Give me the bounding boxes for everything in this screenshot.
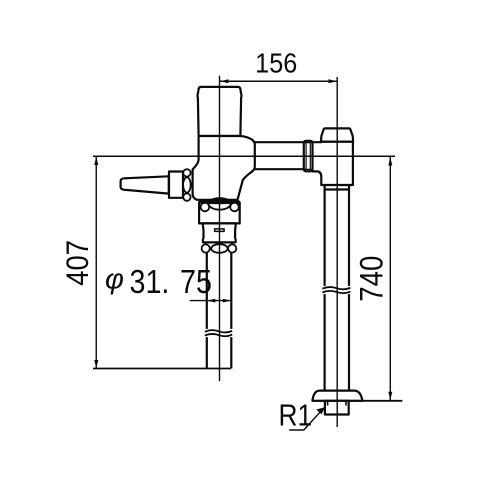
svg-text:75: 75 [180, 263, 212, 300]
svg-text:156: 156 [255, 47, 297, 79]
svg-text:31.: 31. [130, 263, 170, 300]
svg-text:R1: R1 [279, 399, 313, 433]
svg-text:φ: φ [105, 264, 124, 296]
svg-text:407: 407 [60, 240, 95, 286]
svg-text:740: 740 [355, 256, 391, 302]
